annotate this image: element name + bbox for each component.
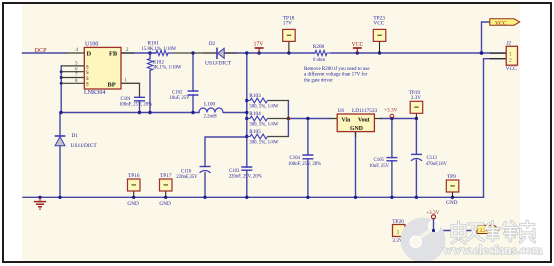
svg-text:1: 1	[397, 230, 400, 236]
svg-text:TP16: TP16	[128, 173, 140, 179]
wire C101 to bus	[139, 101, 141, 113]
svg-text:GND: GND	[446, 200, 458, 206]
wire FB to R101	[121, 52, 156, 54]
svg-text:the gate driver: the gate driver	[304, 78, 333, 83]
wire C113 column	[415, 119, 417, 198]
capacitor C113 electrolytic	[411, 154, 447, 166]
svg-text:a different voltage than 17V f: a different voltage than 17V for	[304, 73, 368, 78]
svg-text:R105: R105	[249, 129, 261, 135]
svg-text:R101: R101	[148, 40, 160, 46]
wire C105 column	[391, 119, 393, 198]
junction R bank output	[287, 117, 291, 121]
test point TP17	[159, 173, 172, 207]
test point TP18	[283, 15, 296, 53]
capacitor C101	[119, 97, 152, 107]
svg-text:VCC: VCC	[495, 21, 507, 27]
svg-text:BP: BP	[108, 82, 116, 89]
svg-text:DCP: DCP	[35, 47, 48, 54]
svg-text:C104: C104	[290, 156, 301, 161]
svg-text:S: S	[86, 77, 89, 82]
svg-text:C105: C105	[374, 158, 385, 163]
resistor R103	[247, 93, 289, 109]
svg-text:17V: 17V	[283, 21, 292, 27]
resistor R200	[309, 44, 333, 63]
wire U6 Vout rail	[381, 118, 416, 120]
resistor R101	[142, 40, 177, 55]
svg-text:R200: R200	[313, 44, 325, 50]
wire C104 column	[307, 119, 309, 198]
test point TP9	[446, 174, 459, 206]
svg-text:470uF,16V: 470uF,16V	[426, 162, 448, 167]
resistor R105	[247, 129, 289, 145]
power port VCC	[352, 42, 364, 53]
power port 17V	[254, 42, 265, 53]
svg-text:+3.3V: +3.3V	[384, 107, 398, 113]
svg-text:TP17: TP17	[160, 173, 172, 179]
ground	[34, 197, 46, 209]
wire +3.3V drop to TP20 wire	[433, 219, 435, 231]
wire C110 to bus	[204, 173, 206, 198]
connector J2	[490, 41, 518, 72]
svg-text:Vin: Vin	[342, 117, 352, 123]
resistor R104	[247, 111, 289, 127]
svg-text:VCC: VCC	[506, 66, 517, 72]
op-amp U100 regulator LNK304	[61, 47, 134, 89]
svg-text:US1J/DICT: US1J/DICT	[71, 143, 98, 149]
svg-text:L100: L100	[204, 102, 216, 108]
svg-text:Remove R200 if you need to use: Remove R200 if you need to use	[304, 67, 370, 72]
note text	[304, 67, 370, 84]
svg-text:FB: FB	[109, 50, 118, 57]
diode D1	[55, 133, 98, 149]
svg-text:R102: R102	[153, 59, 165, 65]
wire ground bus	[23, 196, 484, 198]
wire C110 top link	[205, 137, 247, 167]
svg-text:D1: D1	[72, 133, 79, 139]
svg-text:S: S	[86, 65, 89, 70]
capacitor C102	[170, 91, 199, 101]
test point TP19	[409, 90, 423, 119]
wire D1 column	[59, 113, 61, 198]
capacitor C110 electrolytic	[176, 167, 210, 180]
svg-text:17V: 17V	[254, 42, 265, 48]
svg-text:D2: D2	[209, 41, 216, 47]
watermark text	[443, 221, 543, 257]
wire J2 pin2 to ground bus	[484, 59, 507, 198]
wire R102 column	[149, 53, 151, 113]
svg-text:300, 5%, 1/4W: 300, 5%, 1/4W	[249, 140, 279, 145]
svg-text:10uF, 25V: 10uF, 25V	[170, 96, 191, 101]
svg-text:TP20: TP20	[392, 219, 404, 225]
wire TP20 to 3.3V banner	[411, 230, 477, 232]
wire S-pins column	[60, 66, 62, 113]
resistor R102	[147, 59, 181, 71]
wire resistor bank left vertical	[246, 53, 248, 137]
svg-text:2: 2	[509, 57, 512, 63]
svg-text:0 ohm: 0 ohm	[313, 58, 325, 63]
watermark logo	[401, 218, 446, 263]
svg-text:3K,1%, 1/10W: 3K,1%, 1/10W	[153, 66, 182, 71]
wire L100 to R bank	[223, 112, 247, 114]
diode D2	[203, 41, 237, 66]
svg-text:LD1117533: LD1117533	[352, 108, 378, 114]
capacitor C104	[288, 155, 321, 167]
svg-text:C101: C101	[121, 97, 132, 102]
svg-text:2.2mH: 2.2mH	[204, 115, 218, 120]
wire U6 GND column	[355, 132, 357, 198]
svg-text:100nF, 25V, 20%: 100nF, 25V, 20%	[288, 162, 321, 167]
net label VCC banner	[490, 19, 520, 27]
wire R200 to J2	[331, 52, 506, 54]
svg-text:S: S	[86, 71, 89, 76]
svg-text:VCC: VCC	[352, 42, 364, 48]
svg-text:C103: C103	[229, 169, 240, 174]
wire resistor bank right vertical	[287, 101, 289, 137]
svg-text:US1J/DICT: US1J/DICT	[205, 61, 232, 67]
net label 3.3V banner	[477, 225, 500, 234]
svg-text:R104: R104	[249, 111, 261, 117]
svg-text:C102: C102	[172, 91, 183, 96]
svg-text:220nF, 25V, 20%: 220nF, 25V, 20%	[229, 175, 262, 180]
svg-text:R103: R103	[249, 93, 261, 99]
wire BP to C101	[121, 83, 140, 97]
svg-text:15.8K,1%, 1/10W: 15.8K,1%, 1/10W	[142, 47, 177, 52]
power port +3.3V mid	[384, 107, 398, 118]
svg-text:LNK304: LNK304	[84, 90, 105, 96]
svg-text:C110: C110	[181, 169, 192, 174]
regulator U6 LD1117533	[330, 108, 382, 137]
svg-text:GND: GND	[350, 126, 363, 132]
wire VCC banner drop	[482, 22, 490, 53]
capacitor C103	[229, 167, 262, 180]
svg-text:VCC: VCC	[373, 21, 384, 27]
svg-text:U100: U100	[85, 41, 98, 47]
test point TP20	[392, 219, 411, 244]
test point TP16	[127, 173, 140, 207]
svg-text:C113: C113	[427, 156, 438, 161]
svg-text:10uF, 25V: 10uF, 25V	[369, 164, 390, 169]
svg-text:300, 5%, 1/4W: 300, 5%, 1/4W	[249, 104, 279, 109]
svg-text:220nF,35V: 220nF,35V	[176, 175, 198, 180]
wire mid bus	[61, 112, 199, 114]
svg-text:3.3V: 3.3V	[411, 95, 422, 101]
capacitor C105	[369, 158, 397, 169]
wire R bank to U6 Vin	[288, 118, 330, 120]
svg-text:D: D	[87, 50, 92, 57]
wire C102 column	[192, 53, 194, 113]
svg-text:100nF, 25V, 20%: 100nF, 25V, 20%	[119, 103, 152, 108]
svg-text:J2: J2	[507, 41, 512, 47]
wire D2 to R200	[224, 52, 315, 54]
test point TP23	[373, 15, 386, 53]
power port +3.3V bottom overdraw	[432, 215, 436, 232]
svg-text:U6: U6	[338, 108, 345, 114]
wire DCP	[23, 52, 67, 54]
wire C103 column	[246, 137, 248, 198]
svg-text:S: S	[86, 83, 89, 88]
svg-text:Vout: Vout	[358, 117, 370, 123]
svg-text:300, 5%, 1/4W: 300, 5%, 1/4W	[249, 122, 279, 127]
wire R101 to D2	[168, 52, 216, 54]
svg-text:GND: GND	[127, 201, 139, 207]
svg-text:GND: GND	[159, 201, 171, 207]
svg-text:TP9: TP9	[447, 174, 456, 180]
power port +3.3V bottom	[426, 210, 440, 219]
inductor L100	[199, 102, 223, 120]
svg-text:www.elecfans.com: www.elecfans.com	[443, 243, 543, 257]
